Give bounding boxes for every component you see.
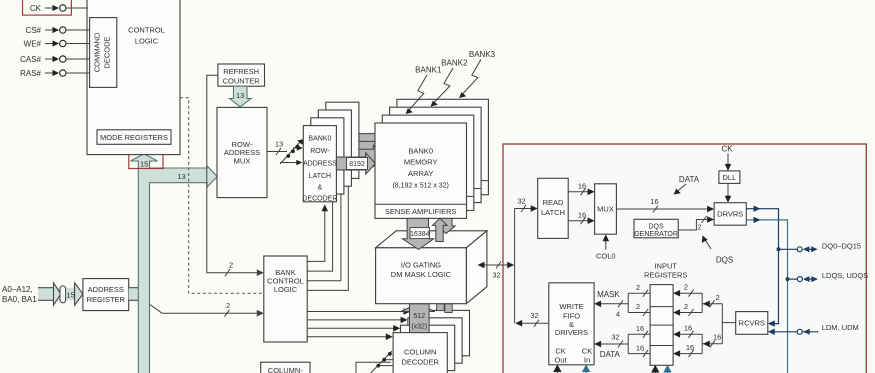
column-address counter/latch box (clipped at bottom) xyxy=(261,362,310,373)
input signal CK xyxy=(30,4,88,13)
svg-text:512: 512 xyxy=(413,313,425,320)
svg-text:REGISTER: REGISTER xyxy=(87,295,126,304)
svg-text:LOGIC: LOGIC xyxy=(135,36,159,45)
input signal WE# xyxy=(24,40,90,49)
svg-text:2: 2 xyxy=(684,302,688,311)
svg-text:16384: 16384 xyxy=(410,231,430,238)
svg-text:MASK: MASK xyxy=(597,290,620,299)
svg-text:BA0, BA1: BA0, BA1 xyxy=(2,295,37,304)
wire 32 from write fifo into internal bus xyxy=(515,311,549,327)
svg-text:I/O GATING: I/O GATING xyxy=(401,260,441,269)
wire 32 into read latch xyxy=(515,197,538,213)
svg-text:CONTROL: CONTROL xyxy=(128,25,165,34)
wire 16 mux to drvrs with DATA pointer xyxy=(616,175,714,213)
wires: bank control logic right to column decoder stack xyxy=(307,308,410,340)
svg-text:(8,192 x 512 x 32): (8,192 x 512 x 32) xyxy=(392,183,448,190)
internal data bus vertical line (32) xyxy=(514,209,516,324)
svg-text:DLL: DLL xyxy=(723,173,737,182)
svg-text:13: 13 xyxy=(275,140,283,149)
diagonal distribution line with junction dots into column decoders xyxy=(370,351,393,373)
CK input and DLL xyxy=(719,145,740,203)
control logic box xyxy=(87,0,180,155)
svg-text:CK: CK xyxy=(582,347,592,356)
svg-text:GENERATOR: GENERATOR xyxy=(634,231,678,238)
refresh counter box xyxy=(218,64,265,86)
svg-text:LDM, UDM: LDM, UDM xyxy=(822,323,859,332)
svg-text:MUX: MUX xyxy=(597,205,614,214)
bank row-address latch & decoder stack (banks 3..0) xyxy=(326,102,359,178)
svg-text:DATA: DATA xyxy=(679,175,700,184)
svg-text:16: 16 xyxy=(636,343,644,352)
bank2 label with zigzag arrow xyxy=(431,59,468,107)
svg-text:MODE REGISTERS: MODE REGISTERS xyxy=(100,133,168,142)
svg-text:13: 13 xyxy=(236,91,244,100)
svg-text:DRIVERS: DRIVERS xyxy=(555,328,588,337)
svg-text:LOGIC: LOGIC xyxy=(274,285,298,294)
LDM, UDM pad row into rcvrs xyxy=(768,323,859,335)
inner bracket to register cells 3-4 xyxy=(673,324,702,358)
512 (x32) arrow cluster between I/O gating and column decoder xyxy=(401,304,452,333)
DQS generator box xyxy=(634,219,678,238)
drvrs box xyxy=(714,203,746,226)
svg-text:COL0: COL0 xyxy=(596,252,616,261)
svg-text:13: 13 xyxy=(177,172,185,181)
DQ0-DQ15 pad row xyxy=(777,241,862,252)
svg-text:DQS: DQS xyxy=(649,223,665,230)
svg-text:SENSE AMPLIFIERS: SENSE AMPLIFIERS xyxy=(385,207,457,216)
svg-text:ARRAY: ARRAY xyxy=(408,169,433,178)
8192 arrow from bank0 latch to bank0 array xyxy=(336,153,375,174)
main address bus (teal): 15-up-arrow, horizontal 13 branch to row mux, vertical run to bottom xyxy=(131,154,218,373)
wire 13: row mux to bank row-address latch fan xyxy=(267,139,305,165)
svg-text:ROW-: ROW- xyxy=(310,148,330,155)
svg-text:COLUMN: COLUMN xyxy=(404,348,437,357)
svg-text:ADDRESS: ADDRESS xyxy=(303,161,337,168)
svg-text:BANK0: BANK0 xyxy=(408,147,433,156)
svg-text:16: 16 xyxy=(636,324,644,333)
CK In clock arrow (blue, from below) xyxy=(582,364,590,373)
svg-text:16: 16 xyxy=(578,210,586,219)
svg-text:32: 32 xyxy=(492,271,500,280)
svg-text:In: In xyxy=(584,356,590,365)
red callout box around 15 arrow xyxy=(129,152,163,169)
svg-text:DATA: DATA xyxy=(600,350,621,359)
svg-text:BANK3: BANK3 xyxy=(469,50,496,59)
16384 arrow cluster between sense amplifiers and I/O gating xyxy=(402,218,455,249)
DDR interface region tint xyxy=(503,144,866,373)
input signal CAS# xyxy=(20,55,90,64)
svg-text:(x32): (x32) xyxy=(411,324,427,331)
address register output bus (teal) xyxy=(129,288,139,301)
inner bracket to register cells 1-2 xyxy=(673,283,702,317)
svg-text:16: 16 xyxy=(713,333,721,342)
bank1 label with zigzag arrow xyxy=(406,66,442,115)
input register clock arrows (from below) xyxy=(651,365,672,373)
svg-text:LATCH: LATCH xyxy=(541,208,565,217)
bank3 label with zigzag arrow xyxy=(459,50,496,98)
svg-text:15: 15 xyxy=(140,159,148,168)
svg-text:ADDRESS: ADDRESS xyxy=(88,285,124,294)
svg-text:WRITE: WRITE xyxy=(559,302,583,311)
drvrs output wires (navy) to DQ/DQS pads xyxy=(746,206,787,373)
memory array stack (banks 3..0) xyxy=(375,99,488,218)
input signal CS# xyxy=(25,26,89,35)
wires: bank control logic up to row-address latches xyxy=(307,186,348,290)
rcvrs output fan to input registers (right side brackets) xyxy=(703,293,736,347)
svg-text:RCVRS: RCVRS xyxy=(739,319,765,328)
svg-text:CAS#: CAS# xyxy=(20,55,41,64)
wire loop from column-address counter to decoder diagonal xyxy=(356,362,391,373)
address input bus (teal) into address register xyxy=(38,283,83,305)
svg-text:16: 16 xyxy=(650,197,658,206)
svg-text:4: 4 xyxy=(616,310,620,319)
svg-text:32: 32 xyxy=(517,197,525,206)
bidirectional 32 bus between I/O gating and internal bus xyxy=(478,262,515,280)
input registers stack xyxy=(650,285,673,366)
svg-text:A0–A12,: A0–A12, xyxy=(2,285,33,294)
svg-text:CK: CK xyxy=(30,4,42,13)
svg-text:DECODER: DECODER xyxy=(302,195,337,202)
CK Out clock arrow (from below) xyxy=(553,364,561,373)
svg-text:15: 15 xyxy=(66,290,74,299)
write fifo & drivers box xyxy=(549,283,594,365)
svg-text:&: & xyxy=(318,185,323,192)
register outputs to write fifo: data 32 xyxy=(594,324,650,359)
svg-text:CK: CK xyxy=(721,145,733,154)
svg-text:LATCH: LATCH xyxy=(309,173,331,180)
svg-text:MEMORY: MEMORY xyxy=(404,158,438,167)
svg-text:READ: READ xyxy=(543,198,564,207)
svg-text:WE#: WE# xyxy=(24,40,42,49)
dashed wire: control logic to bank control logic xyxy=(180,98,264,294)
I/O gating / DM mask logic 3D box xyxy=(376,231,487,304)
svg-text:2: 2 xyxy=(697,223,701,232)
LDQS, UDQS pad row xyxy=(786,271,869,282)
svg-text:REGISTERS: REGISTERS xyxy=(644,271,687,280)
svg-text:COMMAND: COMMAND xyxy=(93,32,102,72)
svg-text:2: 2 xyxy=(716,293,720,302)
wires 16/16 read latch to mux xyxy=(568,182,594,225)
bank control logic box xyxy=(264,256,307,342)
svg-text:DQS: DQS xyxy=(716,256,733,265)
svg-text:LDQS, UDQS: LDQS, UDQS xyxy=(822,271,868,280)
red callout box around CK xyxy=(23,0,72,15)
svg-text:BANK0: BANK0 xyxy=(308,136,331,143)
svg-text:DECODE: DECODE xyxy=(103,36,112,68)
address register box xyxy=(83,279,129,311)
svg-text:2: 2 xyxy=(684,283,688,292)
svg-text:RAS#: RAS# xyxy=(20,69,41,78)
rcvrs box xyxy=(736,312,768,335)
svg-text:COLUMN-: COLUMN- xyxy=(268,366,304,373)
register outputs to write fifo: mask 4 xyxy=(594,283,650,319)
svg-text:16: 16 xyxy=(578,182,586,191)
svg-text:8192: 8192 xyxy=(349,161,365,168)
svg-text:32: 32 xyxy=(530,311,538,320)
svg-text:BANK2: BANK2 xyxy=(441,59,468,68)
svg-text:INPUT: INPUT xyxy=(654,261,677,270)
read latch box xyxy=(538,178,569,238)
svg-text:Out: Out xyxy=(555,356,568,365)
svg-text:2: 2 xyxy=(636,283,640,292)
svg-text:COUNTER: COUNTER xyxy=(223,77,261,86)
mux box xyxy=(595,184,617,234)
svg-text:2: 2 xyxy=(636,302,640,311)
input signal RAS# xyxy=(20,69,90,78)
svg-text:32: 32 xyxy=(611,333,619,342)
svg-text:DECODER: DECODER xyxy=(401,358,439,367)
bank-address tap (2) from bus to bank control logic xyxy=(150,301,264,317)
row-address mux box xyxy=(217,107,267,197)
COL0 input to mux xyxy=(596,234,616,260)
svg-text:CS#: CS# xyxy=(25,26,41,35)
svg-text:2: 2 xyxy=(226,301,230,310)
8192 echo arrows for banks 1-3 (mostly hidden behind stacks) xyxy=(359,130,398,151)
svg-text:CK: CK xyxy=(555,347,565,356)
svg-text:DRVRS: DRVRS xyxy=(717,210,743,219)
svg-text:BANK1: BANK1 xyxy=(415,66,442,75)
command decode box xyxy=(90,18,117,88)
svg-text:DM MASK LOGIC: DM MASK LOGIC xyxy=(391,270,452,279)
column decoder stack (banks 3..0) xyxy=(415,310,469,355)
wire: refresh counter / bank control vertical line xyxy=(207,75,264,276)
svg-text:16: 16 xyxy=(684,324,692,333)
svg-text:2: 2 xyxy=(229,261,233,270)
mode registers box xyxy=(97,130,171,145)
svg-text:MUX: MUX xyxy=(234,156,251,165)
svg-text:DQ0–DQ15: DQ0–DQ15 xyxy=(822,241,861,250)
svg-text:REFRESH: REFRESH xyxy=(223,67,259,76)
svg-text:16: 16 xyxy=(686,343,694,352)
wire 2 dqs generator to drvrs with DQS pointer xyxy=(678,216,733,265)
teal arrow 13 from refresh counter to row-address mux xyxy=(230,86,252,107)
red boundary of DDR interface region xyxy=(503,144,866,373)
